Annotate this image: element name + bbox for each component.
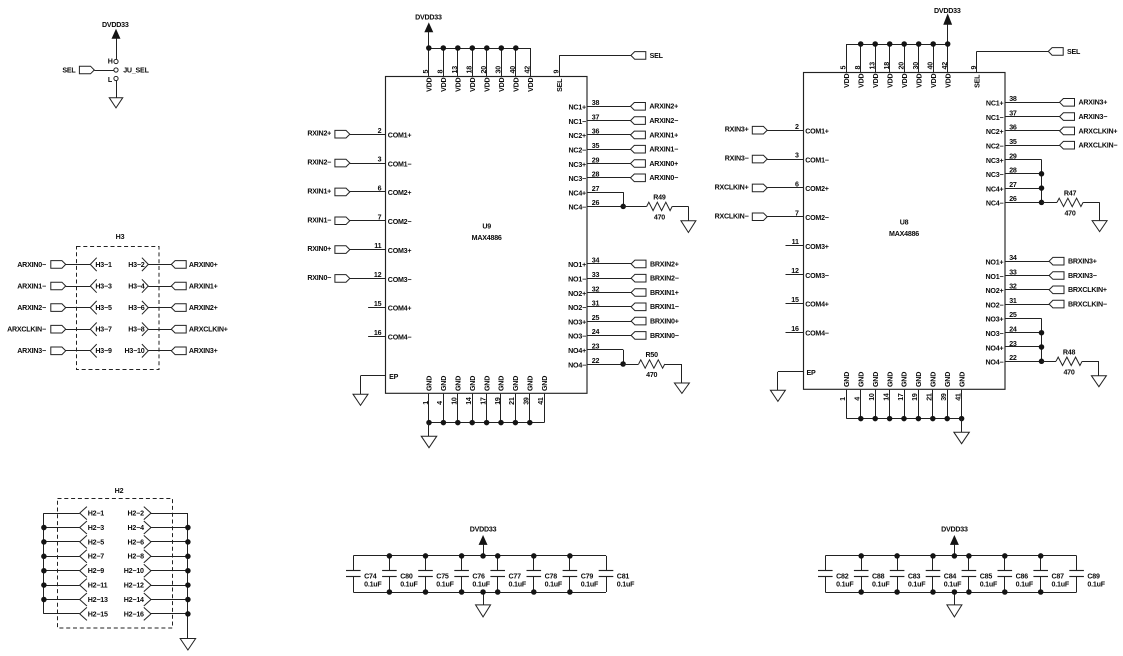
junction VDD bus (U9) xyxy=(484,45,490,51)
svg-text:NC2−: NC2− xyxy=(986,143,1004,151)
junction DVDD33 top rail xyxy=(952,553,958,559)
svg-text:18: 18 xyxy=(466,66,474,74)
wire NC join vertical (U9) xyxy=(623,192,625,206)
junction VDD bus (U8) xyxy=(916,41,922,47)
svg-text:DVDD33: DVDD33 xyxy=(941,525,968,533)
flag BRXIN0+ xyxy=(631,317,646,325)
ground (EP U8) xyxy=(770,390,785,401)
flag RXIN3- xyxy=(752,155,767,163)
svg-text:COM1+: COM1+ xyxy=(805,128,829,136)
wire bottom rail to ground xyxy=(483,592,485,605)
svg-text:ARXCLKIN+: ARXCLKIN+ xyxy=(1079,127,1118,135)
svg-text:13: 13 xyxy=(451,66,459,74)
junction VDD bus (U8) xyxy=(945,41,951,47)
svg-text:H2−15: H2−15 xyxy=(88,610,108,618)
svg-text:NC2−: NC2− xyxy=(569,147,587,155)
flag SEL (U8) xyxy=(1048,48,1063,56)
junction NC join (U8) xyxy=(1039,200,1045,206)
svg-text:7: 7 xyxy=(378,213,382,221)
svg-text:ARXIN1−: ARXIN1− xyxy=(649,146,678,154)
flag RXIN0- xyxy=(335,275,350,283)
svg-text:GND: GND xyxy=(483,376,491,391)
svg-text:C76: C76 xyxy=(472,573,485,581)
flag ARXIN2+ xyxy=(631,103,646,111)
svg-text:RXIN0+: RXIN0+ xyxy=(307,245,331,253)
capacitor C77 xyxy=(497,556,499,571)
wire DVDD33 to jumper H pin xyxy=(116,38,118,59)
svg-text:35: 35 xyxy=(592,142,600,150)
junction GND bus (U8) xyxy=(930,416,936,422)
svg-text:30: 30 xyxy=(495,66,503,74)
svg-text:9: 9 xyxy=(553,70,561,74)
svg-text:RXCLKIN−: RXCLKIN− xyxy=(715,212,749,220)
svg-text:39: 39 xyxy=(940,393,948,401)
svg-text:3: 3 xyxy=(378,156,382,164)
svg-text:VDD: VDD xyxy=(484,77,492,91)
svg-text:27: 27 xyxy=(592,185,600,193)
capacitor C80 xyxy=(389,556,391,571)
resistor R49 xyxy=(647,202,673,210)
connector pin H3-5 xyxy=(90,301,96,308)
svg-text:BRXIN2−: BRXIN2− xyxy=(650,275,679,283)
svg-text:3: 3 xyxy=(795,152,799,160)
wire jumper L to ground xyxy=(116,81,118,98)
U9 pin 15 COM4+ xyxy=(368,307,386,309)
svg-text:H3−10: H3−10 xyxy=(124,347,144,355)
svg-text:0.1uF: 0.1uF xyxy=(436,580,454,588)
svg-text:1: 1 xyxy=(422,401,430,405)
wire H2 right bus xyxy=(187,513,189,638)
junction GND bus (U9) xyxy=(527,420,533,426)
svg-text:COM1−: COM1− xyxy=(388,160,412,168)
svg-text:ARXIN1+: ARXIN1+ xyxy=(189,282,218,290)
wire EP to ground (U9) xyxy=(360,376,362,394)
svg-text:VDD: VDD xyxy=(944,73,952,87)
wire U9 pin 20 VDD xyxy=(486,48,488,77)
svg-text:470: 470 xyxy=(654,214,665,222)
svg-text:H2−12: H2−12 xyxy=(124,582,144,590)
U8 pin 2 COM1+ xyxy=(767,130,803,132)
svg-text:NC3+: NC3+ xyxy=(569,161,587,169)
U9 pin 2 COM1+ xyxy=(350,134,386,136)
wire H3-2 to ARXIN0+ xyxy=(148,264,171,266)
flag ARXIN3+ xyxy=(171,347,186,355)
junction GND bus (U8) xyxy=(944,416,950,422)
wire U9 pin 1 GND xyxy=(428,394,430,423)
svg-text:H2−8: H2−8 xyxy=(128,553,145,561)
svg-text:H2−16: H2−16 xyxy=(124,610,144,618)
capacitor C82 xyxy=(825,556,827,571)
connector pin H2-7 xyxy=(80,550,87,557)
capacitor C76 xyxy=(461,556,463,571)
ground (R49) xyxy=(681,221,696,233)
svg-text:NC1−: NC1− xyxy=(986,114,1004,122)
svg-text:ARXIN1+: ARXIN1+ xyxy=(649,131,678,139)
svg-text:DVDD33: DVDD33 xyxy=(415,14,442,22)
flag RXIN2+ xyxy=(335,130,350,138)
wire SEL flag to jumper xyxy=(94,70,114,72)
flag ARXCLKIN- xyxy=(51,325,66,333)
svg-text:NO1−: NO1− xyxy=(568,276,586,284)
wire H3-4 to ARXIN1+ xyxy=(148,286,171,288)
svg-text:GND: GND xyxy=(527,376,535,391)
svg-text:H2−13: H2−13 xyxy=(88,596,108,604)
svg-text:13: 13 xyxy=(869,62,877,70)
flag ARXIN2+ xyxy=(171,304,186,312)
svg-text:SEL: SEL xyxy=(556,78,564,92)
wire U8 pin 8 VDD xyxy=(860,44,862,73)
svg-text:MAX4886: MAX4886 xyxy=(472,234,502,242)
svg-text:ARXCLKIN−: ARXCLKIN− xyxy=(7,326,46,334)
svg-text:BRXIN1+: BRXIN1+ xyxy=(650,289,679,297)
junction VDD bus (U8) xyxy=(887,41,893,47)
wire U9 pin 10 GND xyxy=(457,394,459,423)
wire GND bus (U8) xyxy=(846,418,961,420)
svg-text:RXIN3−: RXIN3− xyxy=(725,155,749,163)
junction cap bank top rail xyxy=(387,553,393,559)
wire H2-1 to left bus xyxy=(44,513,80,515)
wire U8 pin 30 VDD xyxy=(918,44,920,73)
svg-text:BRXCLKIN+: BRXCLKIN+ xyxy=(1068,286,1107,294)
U9 pin 7 COM2- xyxy=(350,220,386,222)
wire DVDD33 stem (U9) xyxy=(428,32,430,48)
connector pin H2-3 xyxy=(80,521,87,528)
svg-text:C77: C77 xyxy=(509,573,522,581)
junction cap bank top rail xyxy=(1002,553,1008,559)
ground (EP U9) xyxy=(353,394,368,405)
svg-text:H3−7: H3−7 xyxy=(95,326,112,334)
svg-text:6: 6 xyxy=(795,181,799,189)
junction cap bank bottom rail xyxy=(966,589,972,595)
svg-text:COM3+: COM3+ xyxy=(388,247,412,255)
junction cap bank top rail xyxy=(459,553,465,559)
wire R49 to ground xyxy=(672,206,688,208)
junction GND bus (U9) xyxy=(441,420,447,426)
wire DVDD33 to top rail xyxy=(954,544,956,556)
svg-text:11: 11 xyxy=(792,238,799,246)
U8 pin 16 COM4- xyxy=(786,332,804,334)
wire NO4- to resistor R50 xyxy=(623,364,639,366)
svg-text:41: 41 xyxy=(954,393,962,401)
wire U9 pin 18 VDD xyxy=(472,48,474,77)
wire H2 left bus xyxy=(43,513,45,614)
junction cap bank top rail xyxy=(495,553,501,559)
svg-text:R49: R49 xyxy=(653,194,666,202)
flag ARXIN0+ xyxy=(171,261,186,269)
flag ARXIN1+ xyxy=(631,131,646,139)
U9 pin 12 COM3- xyxy=(350,278,386,280)
svg-text:14: 14 xyxy=(465,397,473,405)
svg-text:H3−8: H3−8 xyxy=(128,326,145,334)
svg-text:18: 18 xyxy=(883,62,891,70)
junction GND bus (U8) xyxy=(887,416,893,422)
svg-text:0.1uF: 0.1uF xyxy=(545,580,563,588)
svg-text:17: 17 xyxy=(479,397,487,405)
svg-text:DVDD33: DVDD33 xyxy=(102,21,129,29)
wire U8 pin 10 GND xyxy=(875,390,877,419)
wire H3-6 to ARXIN2+ xyxy=(148,307,171,309)
svg-text:16: 16 xyxy=(374,329,382,337)
wire U9 pin 14 GND xyxy=(472,394,474,423)
svg-text:BRXIN0−: BRXIN0− xyxy=(650,332,679,340)
wire U9 pin 17 GND xyxy=(486,394,488,423)
flag BRXIN1- xyxy=(631,303,646,311)
svg-text:NC1+: NC1+ xyxy=(569,104,587,112)
svg-text:MAX4886: MAX4886 xyxy=(889,230,919,238)
junction cap bank bottom rail xyxy=(1038,589,1044,595)
svg-text:10: 10 xyxy=(451,397,459,405)
junction cap bank top rail xyxy=(423,553,429,559)
connector pin H3-9 xyxy=(90,344,96,351)
flag ARXCLKIN+ xyxy=(1060,127,1075,135)
svg-text:U8: U8 xyxy=(900,219,909,227)
svg-text:H3−1: H3−1 xyxy=(95,261,112,269)
svg-text:RXIN1+: RXIN1+ xyxy=(307,187,331,195)
svg-text:10: 10 xyxy=(868,393,876,401)
svg-text:6: 6 xyxy=(378,185,382,193)
svg-text:VDD: VDD xyxy=(527,77,535,91)
wire U8 pin 39 GND xyxy=(947,390,949,419)
capacitor C88 xyxy=(861,556,863,571)
svg-text:22: 22 xyxy=(592,357,600,365)
wire EP to ground (U8) xyxy=(777,372,779,390)
svg-text:0.1uF: 0.1uF xyxy=(872,580,890,588)
svg-text:VDD: VDD xyxy=(901,73,909,87)
svg-text:25: 25 xyxy=(592,314,600,322)
svg-text:470: 470 xyxy=(1063,368,1074,376)
svg-text:27: 27 xyxy=(1009,181,1017,189)
junction cap bank bottom rail xyxy=(423,589,429,595)
junction NO join (U9) xyxy=(620,361,626,367)
junction cap bank top rail xyxy=(531,553,537,559)
wire ARXIN1- to H3-3 xyxy=(66,286,91,288)
svg-text:NO4−: NO4− xyxy=(986,359,1004,367)
flag BRXIN2+ xyxy=(631,260,646,268)
connector pin H3-3 xyxy=(90,279,96,286)
ground (R48) xyxy=(1091,376,1106,387)
wire H2-14 to right bus xyxy=(151,599,188,601)
wire U8 pin 19 GND xyxy=(918,390,920,419)
svg-text:GND: GND xyxy=(440,376,448,391)
svg-text:GND: GND xyxy=(958,372,966,387)
svg-text:42: 42 xyxy=(941,62,949,70)
wire NC join vertical (U8) xyxy=(1041,160,1043,203)
flag ARXCLKIN- xyxy=(1060,141,1075,149)
capacitor C89 xyxy=(1076,556,1078,571)
svg-text:C79: C79 xyxy=(581,573,594,581)
wire DVDD33 to top rail xyxy=(483,544,485,556)
wire H2-13 to left bus xyxy=(44,599,80,601)
junction cap bank bottom rail xyxy=(1002,589,1008,595)
capacitor C78 xyxy=(533,556,535,571)
wire U8 pin 41 GND xyxy=(961,390,963,419)
U8 pin EP xyxy=(778,371,803,373)
svg-text:0.1uF: 0.1uF xyxy=(400,580,418,588)
svg-text:NO3+: NO3+ xyxy=(568,318,586,326)
flag ARXIN0- xyxy=(51,261,66,269)
svg-text:NC3−: NC3− xyxy=(569,175,587,183)
svg-text:42: 42 xyxy=(524,66,532,74)
svg-text:H2−7: H2−7 xyxy=(88,553,105,561)
svg-text:ARXIN3+: ARXIN3+ xyxy=(1079,99,1108,107)
junction H2 right bus xyxy=(185,611,191,617)
svg-text:4: 4 xyxy=(436,401,444,405)
wire H3-10 to ARXIN3+ xyxy=(148,350,171,352)
svg-text:0.1uF: 0.1uF xyxy=(980,580,998,588)
U8 pin 11 COM3+ xyxy=(786,245,804,247)
svg-text:GND: GND xyxy=(858,372,866,387)
svg-text:RXCLKIN+: RXCLKIN+ xyxy=(715,183,749,191)
svg-text:NC1+: NC1+ xyxy=(986,100,1004,108)
junction VDD bus (U9) xyxy=(455,45,461,51)
svg-text:C85: C85 xyxy=(980,573,993,581)
wire H2-5 to left bus xyxy=(44,541,80,543)
svg-text:NC4−: NC4− xyxy=(986,200,1004,208)
svg-text:C87: C87 xyxy=(1052,573,1065,581)
flag RXIN2- xyxy=(335,159,350,167)
U9 pin 11 COM3+ xyxy=(350,249,386,251)
ground (R47) xyxy=(1092,221,1107,232)
svg-text:GND: GND xyxy=(843,372,851,387)
svg-text:NO2+: NO2+ xyxy=(986,287,1004,295)
wire GND bus to ground (U8) xyxy=(961,419,963,433)
wire ARXIN0- to H3-1 xyxy=(66,264,91,266)
svg-text:VDD: VDD xyxy=(843,73,851,87)
svg-text:NC4−: NC4− xyxy=(569,204,587,212)
wire U8 pin 9 SEL to flag xyxy=(976,51,978,73)
junction cap bank bottom rail xyxy=(387,589,393,595)
svg-text:0.1uF: 0.1uF xyxy=(1087,580,1105,588)
junction cap bank bottom rail xyxy=(531,589,537,595)
connector H2 dashed outline xyxy=(58,499,173,629)
flag BRXCLKIN- xyxy=(1049,300,1064,308)
svg-text:8: 8 xyxy=(437,70,445,74)
svg-text:H2−1: H2−1 xyxy=(88,510,105,518)
wire U9 pin 41 GND xyxy=(544,394,546,423)
svg-text:COM4+: COM4+ xyxy=(805,301,829,309)
wire U8 pin 42 VDD xyxy=(947,44,949,73)
wire cap bank top rail xyxy=(353,555,606,557)
wire VDD bus (U8) xyxy=(846,44,948,46)
junction H2 right bus xyxy=(185,525,191,531)
junction GND bus (U8) xyxy=(872,416,878,422)
flag RXIN0+ xyxy=(335,246,350,254)
connector pin H2-11 xyxy=(80,579,87,586)
svg-text:0.1uF: 0.1uF xyxy=(908,580,926,588)
junction H2 left bus xyxy=(41,539,47,545)
flag ARXIN1+ xyxy=(171,282,186,290)
flag ARXIN0+ xyxy=(631,160,646,168)
svg-text:VDD: VDD xyxy=(455,77,463,91)
svg-text:12: 12 xyxy=(791,267,799,275)
svg-text:BRXIN2+: BRXIN2+ xyxy=(650,260,679,268)
svg-text:H2−11: H2−11 xyxy=(88,582,108,590)
svg-text:C89: C89 xyxy=(1087,573,1100,581)
svg-text:33: 33 xyxy=(592,271,600,279)
connector pin H2-1 xyxy=(80,507,87,513)
wire U8 pin 4 GND xyxy=(860,390,862,419)
svg-text:H3−3: H3−3 xyxy=(95,282,112,290)
svg-text:R47: R47 xyxy=(1064,190,1077,198)
svg-text:VDD: VDD xyxy=(930,73,938,87)
wire bottom rail to ground xyxy=(954,592,956,605)
capacitor C87 xyxy=(1040,556,1042,571)
junction GND bus (U8) xyxy=(858,416,864,422)
svg-text:19: 19 xyxy=(494,397,502,405)
wire NO join vertical (U9) xyxy=(623,350,625,364)
junction cap bank top rail xyxy=(930,553,936,559)
flag RXIN3+ xyxy=(752,126,767,134)
wire cap bank top rail xyxy=(825,555,1076,557)
junction H2 right bus xyxy=(185,597,191,603)
svg-text:5: 5 xyxy=(422,70,430,74)
svg-text:NC4+: NC4+ xyxy=(569,189,587,197)
svg-text:ARXIN0+: ARXIN0+ xyxy=(649,160,678,168)
ground (cap bank) xyxy=(947,605,962,617)
wire U9 pin 40 VDD xyxy=(515,48,517,77)
wire H2-8 to right bus xyxy=(151,556,188,558)
svg-text:EP: EP xyxy=(389,373,399,381)
svg-text:GND: GND xyxy=(512,376,520,391)
svg-text:GND: GND xyxy=(930,372,938,387)
junction GND bus (U8) xyxy=(959,416,965,422)
U9 pin 16 COM4- xyxy=(368,336,386,338)
wire U9 pin 9 SEL to flag xyxy=(559,55,561,77)
svg-text:C83: C83 xyxy=(908,573,921,581)
svg-text:0.1uF: 0.1uF xyxy=(472,580,490,588)
ground (H2 right bus) xyxy=(180,639,196,651)
flag ARXIN1- xyxy=(51,282,66,290)
svg-text:R50: R50 xyxy=(646,351,659,359)
resistor R47 xyxy=(1057,198,1083,206)
wire U8 pin 5 VDD xyxy=(846,44,848,73)
svg-text:39: 39 xyxy=(523,397,531,405)
svg-text:9: 9 xyxy=(970,66,978,70)
wire U8 pin 17 GND xyxy=(904,390,906,419)
flag RXIN1+ xyxy=(335,188,350,196)
capacitor C81 xyxy=(606,556,608,571)
svg-text:H3−9: H3−9 xyxy=(95,347,112,355)
svg-text:C84: C84 xyxy=(944,573,957,581)
wire H3-8 to ARXCLKIN+ xyxy=(148,329,171,331)
svg-text:NO3−: NO3− xyxy=(568,333,586,341)
flag ARXCLKIN+ xyxy=(171,325,186,333)
svg-text:5: 5 xyxy=(840,66,848,70)
svg-text:VDD: VDD xyxy=(440,77,448,91)
svg-text:NO4−: NO4− xyxy=(568,361,586,369)
svg-text:COM1−: COM1− xyxy=(805,156,829,164)
flag BRXCLKIN+ xyxy=(1049,286,1064,294)
wire H2-2 to right bus xyxy=(151,513,188,515)
svg-text:38: 38 xyxy=(1009,95,1017,103)
svg-text:GND: GND xyxy=(498,376,506,391)
connector pin H3-7 xyxy=(90,323,96,330)
wire U9 pin 30 VDD xyxy=(501,48,503,77)
svg-text:VDD: VDD xyxy=(513,77,521,91)
wire H2-7 to left bus xyxy=(44,556,80,558)
svg-text:21: 21 xyxy=(508,397,516,405)
ground (jumper JU_SEL) xyxy=(109,98,123,108)
junction GND bus (U8) xyxy=(916,416,922,422)
svg-text:15: 15 xyxy=(374,300,382,308)
svg-text:COM3−: COM3− xyxy=(805,272,829,280)
svg-text:H2−3: H2−3 xyxy=(88,524,105,532)
wire U9 pin 4 GND xyxy=(443,394,445,423)
svg-text:VDD: VDD xyxy=(426,77,434,91)
wire H2-10 to right bus xyxy=(151,570,188,572)
connector pin H2-5 xyxy=(80,535,87,542)
svg-text:NO4+: NO4+ xyxy=(986,344,1004,352)
